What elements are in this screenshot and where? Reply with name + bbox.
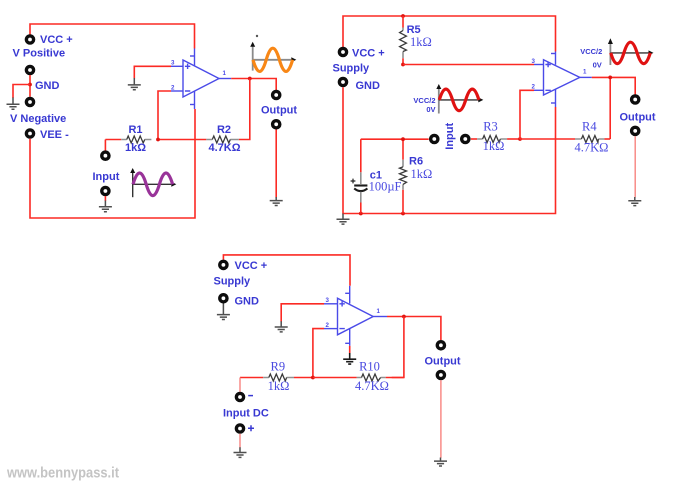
connector Output return	[437, 371, 444, 378]
label minus	[248, 395, 253, 397]
connector GND	[339, 78, 346, 85]
wire output to connector	[387, 317, 441, 341]
svg-text:R2: R2	[217, 124, 231, 136]
svg-text:1kΩ: 1kΩ	[411, 167, 433, 181]
ground (op-amp V-)	[343, 353, 356, 364]
ground (noninverting)	[275, 321, 288, 332]
wire input plus to ground	[239, 434, 241, 448]
wire between supply connectors	[29, 75, 31, 97]
wire output return to ground	[634, 136, 636, 197]
connector V Negative	[26, 98, 33, 105]
input waveform graphic (red sine)	[413, 84, 483, 114]
svg-text:3: 3	[171, 60, 175, 67]
svg-text:V Negative: V Negative	[10, 113, 66, 125]
svg-text:Input: Input	[93, 171, 120, 183]
svg-text:1: 1	[377, 308, 381, 315]
svg-text:R10: R10	[359, 359, 380, 373]
op-amp U2	[532, 52, 592, 108]
resistor R10	[313, 359, 404, 393]
connector Output	[273, 91, 280, 98]
svg-text:Supply: Supply	[333, 63, 371, 75]
svg-text:1: 1	[583, 69, 587, 76]
svg-text:1kΩ: 1kΩ	[483, 139, 505, 153]
svg-text:VCC +: VCC +	[40, 34, 73, 46]
node output junction	[608, 76, 612, 80]
wire VCC to op-amp V+	[223, 255, 350, 286]
wire GND branch	[13, 85, 30, 99]
svg-text:Output: Output	[425, 355, 461, 367]
wire R9 to input connector	[239, 378, 241, 392]
capacitor c1	[351, 139, 402, 213]
connector GND	[220, 295, 227, 302]
svg-text:100µF: 100µF	[369, 180, 402, 194]
svg-text:Supply: Supply	[214, 276, 252, 288]
resistor R1	[105, 124, 151, 154]
svg-text:VCC +: VCC +	[352, 47, 385, 59]
connector VEE-	[26, 130, 33, 137]
resistor R5	[400, 16, 432, 58]
wire junction up to inverting input	[520, 90, 534, 139]
svg-text:VEE -: VEE -	[40, 129, 69, 141]
wire input return to ground	[104, 196, 106, 201]
svg-text:0V: 0V	[593, 60, 602, 69]
ground (output dc)	[434, 458, 447, 467]
svg-text:Output: Output	[620, 112, 656, 124]
resistor R6	[400, 139, 433, 213]
wire feedback down to R10	[392, 317, 404, 378]
svg-text:R6: R6	[409, 156, 423, 168]
wire R5 bottom	[402, 58, 404, 64]
op-amp U1	[171, 49, 231, 110]
svg-text:0V: 0V	[426, 105, 435, 114]
node R9/R10/inverting junction	[311, 376, 315, 380]
wire R1 to input connector	[104, 140, 106, 151]
svg-text:GND: GND	[35, 80, 60, 92]
svg-text:4.7KΩ: 4.7KΩ	[355, 379, 389, 393]
resistor R9	[240, 359, 313, 393]
output waveform graphic (red sine)	[580, 38, 653, 69]
wire top rail VCC to op-amp V+	[30, 24, 195, 49]
ground (output)	[628, 197, 641, 206]
wire noninverting input to ground	[134, 66, 171, 78]
node R5 top junction	[401, 14, 405, 18]
wire c1/R6 to input connector	[361, 138, 429, 140]
wire output to connector	[231, 79, 276, 91]
ground (noninverting input)	[128, 78, 141, 90]
svg-text:R4: R4	[582, 119, 597, 133]
wire output return to ground	[440, 380, 442, 458]
wire noninverting input to ground	[281, 304, 324, 322]
svg-text:1kΩ: 1kΩ	[125, 142, 146, 154]
node input tee	[401, 137, 405, 141]
wire divider to noninverting input	[403, 64, 534, 66]
node output junction	[402, 315, 406, 319]
svg-text:R3: R3	[483, 119, 498, 133]
wire inverting input down to R1/R2 node	[158, 91, 171, 140]
svg-text:4.7KΩ: 4.7KΩ	[575, 141, 609, 155]
wire feedback from output node down to R2	[239, 79, 250, 140]
connector V Positive	[26, 66, 33, 73]
connector Input right	[462, 135, 469, 142]
svg-text:Output: Output	[261, 105, 297, 117]
ground (supply)	[337, 214, 350, 225]
output waveform graphic (orange sine)	[250, 35, 296, 72]
svg-text:VCC +: VCC +	[235, 260, 268, 272]
resistor R2	[158, 124, 241, 154]
node R3/R4/inverting junction	[518, 137, 522, 141]
svg-text:1kΩ: 1kΩ	[410, 35, 432, 49]
svg-text:V Positive: V Positive	[13, 48, 66, 60]
connector VCC+ supply	[220, 261, 227, 268]
node R5/R6 divider junction	[401, 63, 405, 67]
ground (left)	[7, 98, 20, 110]
resistor R3	[471, 119, 520, 153]
svg-text:GND: GND	[235, 295, 260, 307]
ground (input dc)	[234, 447, 247, 457]
svg-text:VCC/2: VCC/2	[580, 47, 602, 56]
ground (supply gnd)	[217, 304, 230, 320]
svg-text:3: 3	[532, 58, 536, 65]
wire output return to ground	[275, 130, 277, 198]
label plus	[248, 425, 254, 431]
svg-text:4.7KΩ: 4.7KΩ	[208, 142, 240, 154]
connector Input signal	[102, 152, 109, 159]
svg-text:1kΩ: 1kΩ	[268, 379, 290, 393]
svg-text:GND: GND	[356, 80, 381, 92]
wire top rail to op-amp V+	[343, 16, 556, 52]
connector Input DC minus	[236, 393, 243, 400]
svg-text:3: 3	[326, 297, 330, 304]
svg-text:2: 2	[532, 84, 536, 91]
node R1/R2/inverting junction	[156, 138, 160, 142]
svg-text:R9: R9	[271, 359, 286, 373]
op-amp U3	[324, 286, 387, 346]
connector Output return	[632, 127, 639, 134]
wire GND down left rail and bottom rail to op-amp V-	[343, 87, 556, 213]
connector Input return	[102, 187, 109, 194]
connector VCC+	[26, 36, 33, 43]
svg-text:1: 1	[223, 70, 227, 77]
input waveform graphic (purple sine)	[130, 168, 176, 197]
svg-text:2: 2	[171, 84, 175, 91]
connector Input DC plus	[236, 425, 243, 432]
ground (output)	[270, 197, 283, 206]
node output junction	[248, 77, 252, 81]
svg-text:Input: Input	[444, 123, 456, 150]
connector Output	[437, 342, 444, 349]
svg-text:www.bennypass.it: www.bennypass.it	[6, 465, 119, 482]
node junction GND tap	[28, 83, 32, 87]
resistor R4	[520, 119, 610, 154]
connector VCC+ supply	[339, 48, 346, 55]
ground (input)	[99, 201, 112, 212]
svg-text:Input DC: Input DC	[223, 408, 269, 420]
wire R4 up to output node	[609, 77, 611, 139]
svg-text:2: 2	[326, 322, 330, 329]
connector Input left	[431, 135, 438, 142]
connector Output	[632, 96, 639, 103]
wire output to connector	[592, 77, 635, 94]
connector Output return	[273, 121, 280, 128]
node R6 bottom	[401, 212, 405, 216]
wire left rail VEE to op-amp V-	[30, 109, 195, 218]
wire op-amp V- to ground	[349, 346, 351, 354]
node c1 bottom	[359, 212, 363, 216]
wire inverting input down to R9/R10 node	[313, 329, 324, 378]
svg-text:R1: R1	[128, 124, 142, 136]
